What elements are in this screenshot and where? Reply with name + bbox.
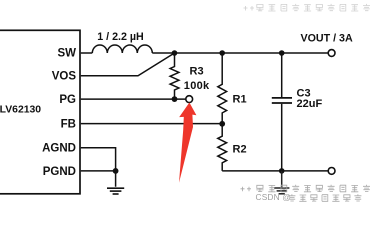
svg-text:AGND: AGND xyxy=(42,143,76,155)
wire SW node to VOUT terminal xyxy=(152,52,328,54)
svg-text:FB: FB xyxy=(61,119,76,131)
junction SW/C3 xyxy=(279,50,285,56)
svg-text:R1: R1 xyxy=(233,94,247,106)
svg-text:22uF: 22uF xyxy=(297,98,323,110)
svg-text:SW: SW xyxy=(57,48,76,60)
resistor R1 xyxy=(218,53,227,124)
svg-text:VOS: VOS xyxy=(52,71,77,83)
svg-text:100k: 100k xyxy=(184,80,210,92)
svg-text:PGND: PGND xyxy=(43,166,76,178)
watermark bottom row 1 xyxy=(241,185,371,192)
svg-text:R3: R3 xyxy=(190,66,204,78)
junction PG/R3 xyxy=(172,96,178,102)
annotation red arrow pointing at PG node xyxy=(179,103,196,183)
wire bottom rail R2 to GND terminal xyxy=(222,170,328,172)
svg-text:PG: PG xyxy=(59,94,76,106)
resistor R2 xyxy=(218,124,227,171)
inductor L1 xyxy=(92,45,152,53)
resistor R3 xyxy=(170,53,179,99)
svg-text:R2: R2 xyxy=(233,144,247,156)
svg-text:TLV62130: TLV62130 xyxy=(0,105,41,116)
svg-text:VOUT / 3A: VOUT / 3A xyxy=(300,32,353,44)
ground symbol GND2 under C3 xyxy=(274,171,289,194)
capacitor C3 xyxy=(272,53,292,171)
node VOUT terminal circle xyxy=(328,50,335,57)
node PG terminal circle xyxy=(186,96,193,103)
wire FB pin to divider node xyxy=(81,123,222,125)
wire PG pin to PG terminal xyxy=(81,98,186,100)
wire PGND pin xyxy=(81,170,116,172)
wire AGND pin to ground xyxy=(81,148,116,187)
ground symbol GND1 xyxy=(107,188,124,194)
wire VOS pin with diagonal to SW node xyxy=(81,53,175,76)
junction FB/R1/R2 xyxy=(219,121,225,127)
junction AGND/PGND xyxy=(113,168,119,174)
watermark top right row xyxy=(244,4,371,11)
wire SW pin to inductor xyxy=(81,52,93,54)
svg-text:1 / 2.2 µH: 1 / 2.2 µH xyxy=(97,31,144,43)
svg-text:CSDN @: CSDN @ xyxy=(256,192,291,202)
junction bottom/C3 xyxy=(279,168,285,174)
junction SW/R3 xyxy=(172,50,178,56)
junction SW/R1 xyxy=(219,50,225,56)
IC U1 TLV62130 box xyxy=(0,30,80,194)
node GND terminal circle xyxy=(328,168,335,175)
